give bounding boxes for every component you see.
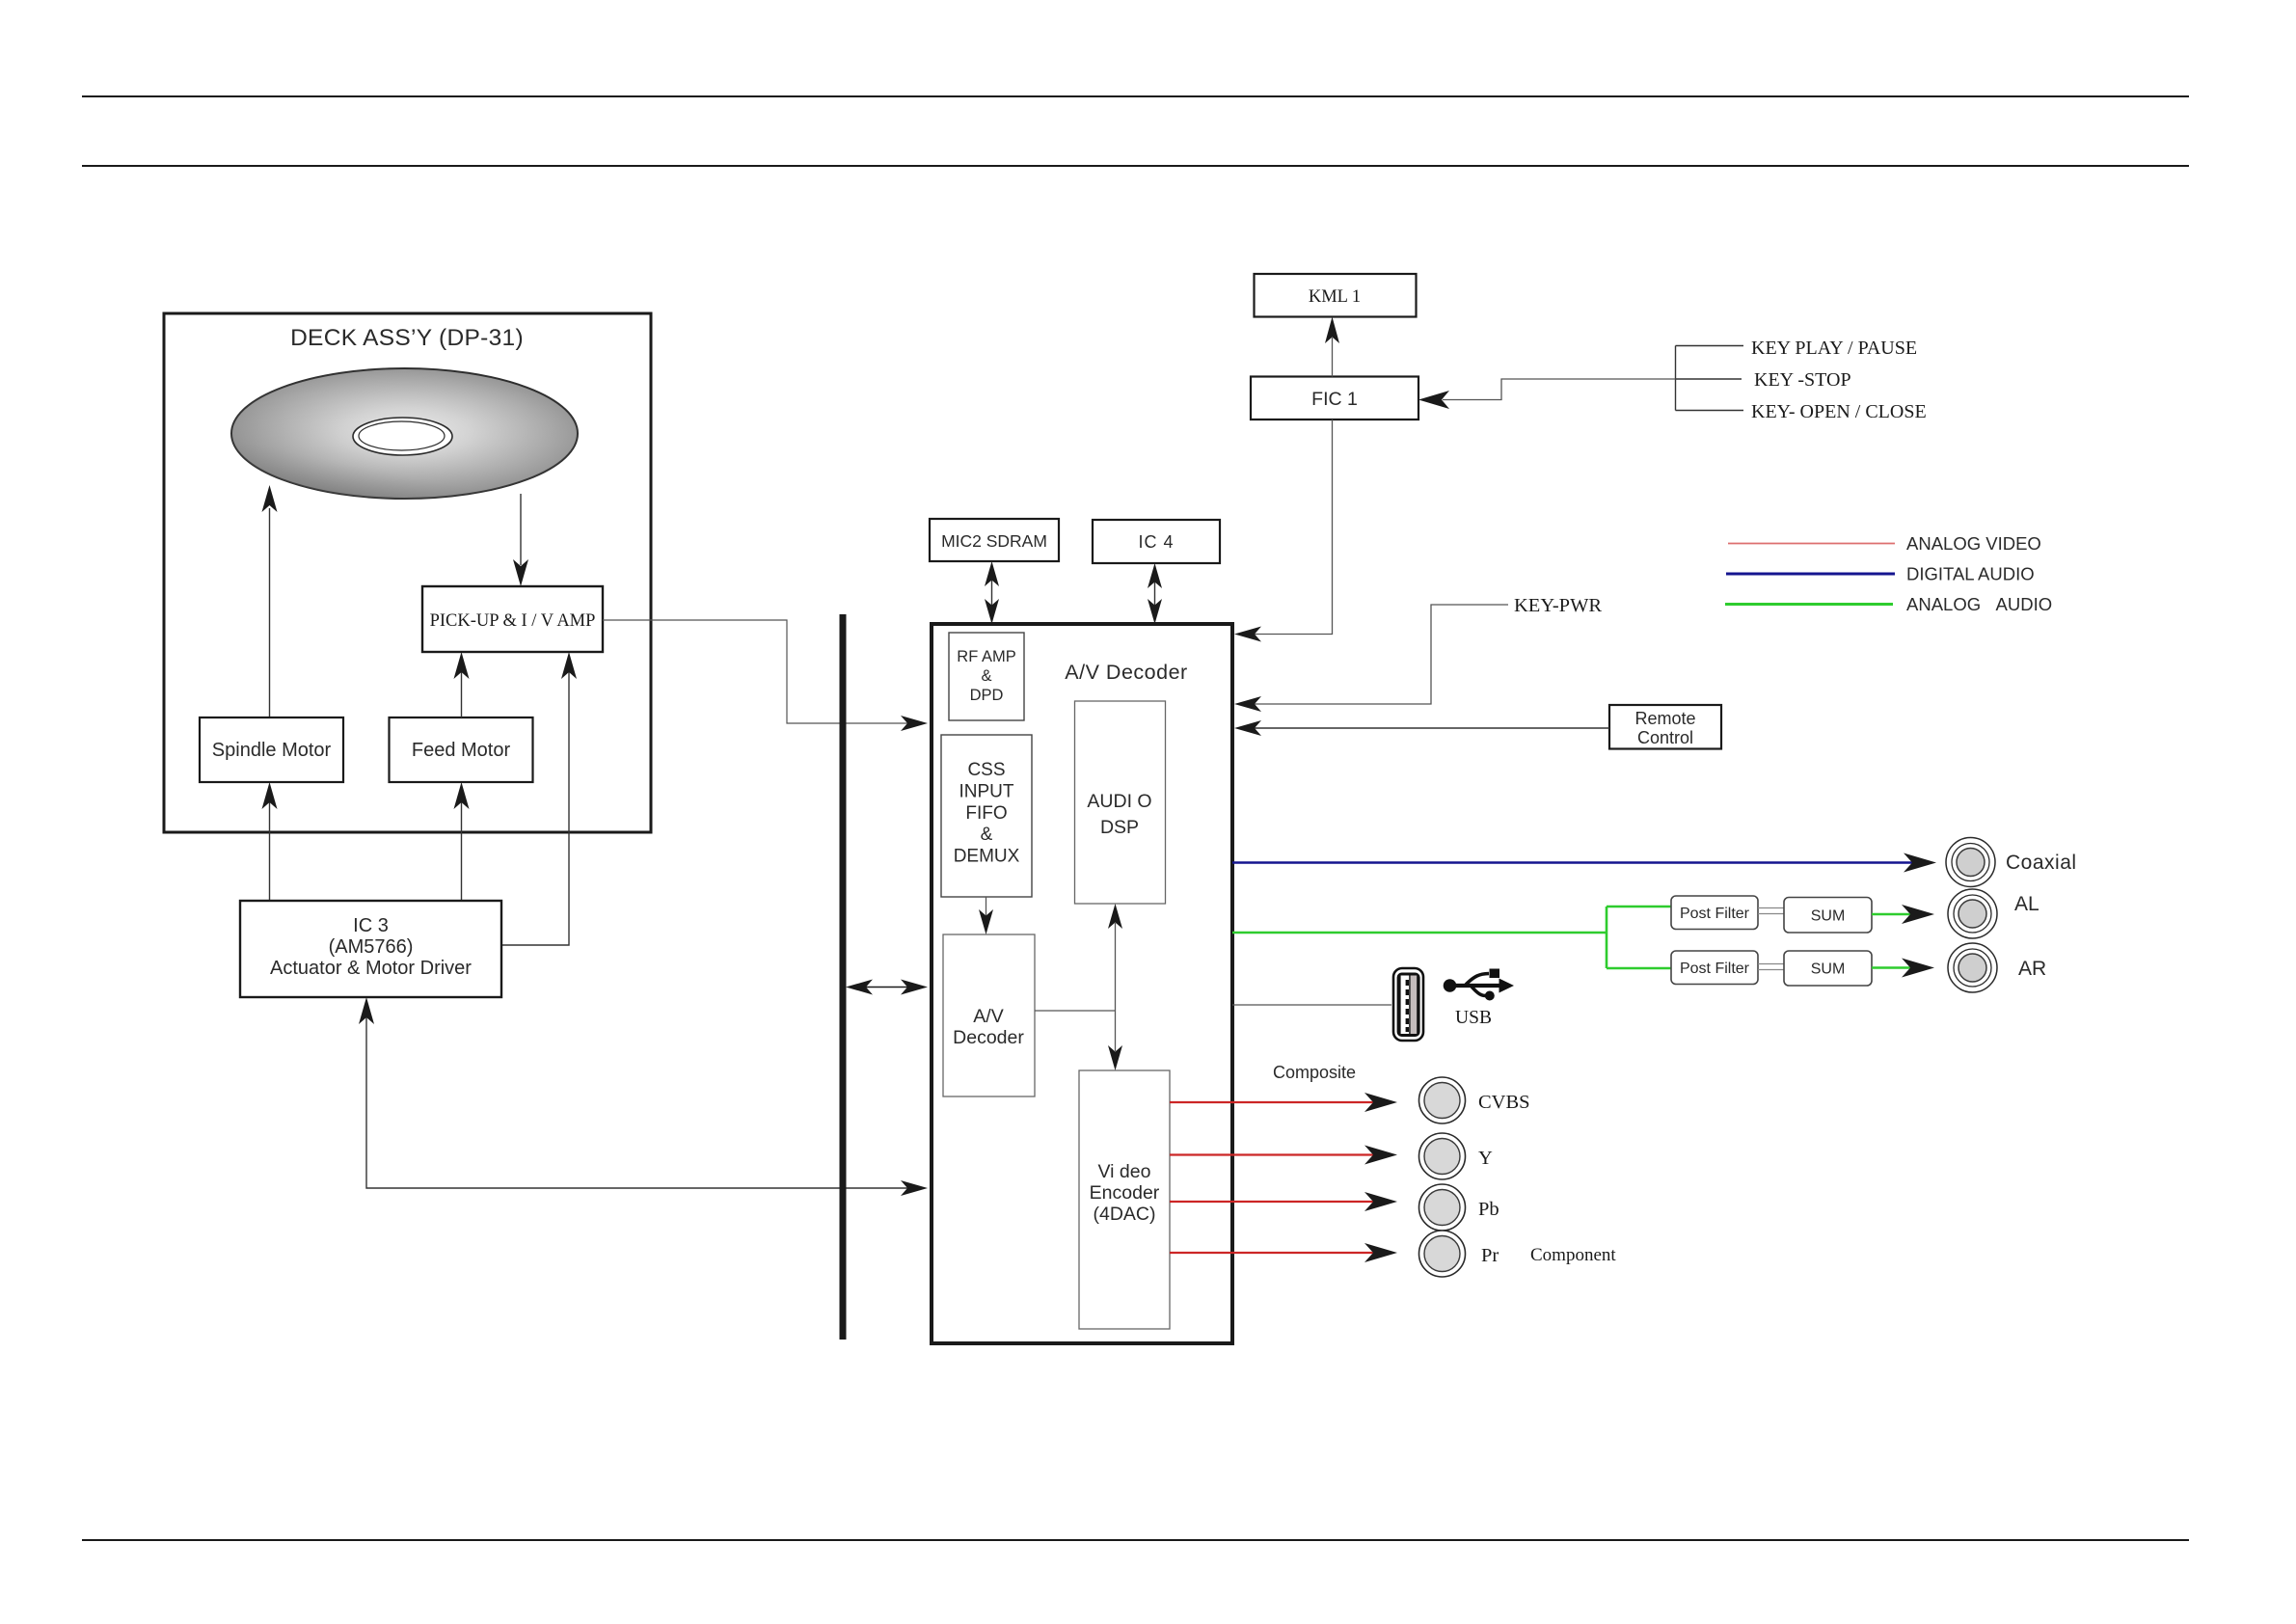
connector CVBS xyxy=(1419,1077,1530,1123)
svg-text:(AM5766): (AM5766) xyxy=(329,936,414,958)
svg-text:USB: USB xyxy=(1455,1008,1492,1028)
svg-text:AL: AL xyxy=(2014,893,2039,915)
wire feed motor from IC3 xyxy=(454,782,470,901)
AUDIO DSP block xyxy=(1075,701,1166,904)
svg-text:Component: Component xyxy=(1530,1245,1616,1265)
KML 1 box xyxy=(1255,274,1417,317)
DECK ASS'Y (DP-31) enclosure xyxy=(164,313,651,832)
RF AMP & DPD block xyxy=(949,633,1024,720)
svg-text:Spindle Motor: Spindle Motor xyxy=(212,740,332,761)
wire Y (red) xyxy=(1170,1146,1397,1165)
svg-text:Pb: Pb xyxy=(1478,1199,1499,1220)
Spindle Motor box xyxy=(200,717,343,782)
USB receptacle icon xyxy=(1393,968,1423,1041)
svg-text:DECK ASS’Y (DP-31): DECK ASS’Y (DP-31) xyxy=(290,325,524,351)
svg-text:KEY- OPEN / CLOSE: KEY- OPEN / CLOSE xyxy=(1751,401,1927,422)
wire IC3 to pick-up xyxy=(502,652,578,945)
svg-text:Post Filter: Post Filter xyxy=(1680,906,1750,922)
svg-text:KEY PLAY / PAUSE: KEY PLAY / PAUSE xyxy=(1751,338,1917,359)
svg-text:ANALOG VIDEO: ANALOG VIDEO xyxy=(1906,533,2041,554)
wire A/V core junction to audio dsp and video encoder xyxy=(1035,904,1122,1070)
svg-text:SUM: SUM xyxy=(1811,961,1846,978)
A/V Decoder main IC box xyxy=(932,624,1232,1343)
svg-text:IC 3: IC 3 xyxy=(353,915,389,936)
svg-text:FIFO: FIFO xyxy=(965,803,1007,824)
svg-text:ANALOG AUDIO: ANALOG AUDIO xyxy=(1906,594,2052,614)
svg-text:&: & xyxy=(981,825,993,845)
Post Filter box (right channel) xyxy=(1671,951,1758,985)
svg-text:KEY -STOP: KEY -STOP xyxy=(1754,369,1851,391)
SUM box (right channel) xyxy=(1784,951,1872,986)
legend: digital audio line xyxy=(1726,564,2035,584)
disc (DVD media) xyxy=(231,368,578,499)
wire post filter to SUM (right) xyxy=(1758,964,1784,970)
IC 3 (AM5766) Actuator & Motor Driver box xyxy=(240,901,501,997)
svg-text:A/V: A/V xyxy=(973,1006,1003,1027)
svg-text:KML 1: KML 1 xyxy=(1309,287,1361,307)
CSS INPUT FIFO & DEMUX block xyxy=(941,735,1032,897)
wire keys to FIC 1 xyxy=(1418,379,1676,409)
svg-text:Post Filter: Post Filter xyxy=(1680,961,1750,977)
wire IC3 bottom to A/V decoder bus xyxy=(359,997,928,1196)
Video Encoder (4DAC) block xyxy=(1079,1070,1170,1329)
wire analog audio (green) from decoder xyxy=(1232,907,1671,968)
svg-text:CVBS: CVBS xyxy=(1478,1092,1530,1113)
svg-text:Vi deo: Vi deo xyxy=(1098,1161,1151,1182)
svg-text:Feed Motor: Feed Motor xyxy=(412,740,511,761)
wire disc to pick-up xyxy=(513,494,528,586)
Post Filter box (left channel) xyxy=(1671,896,1758,930)
Feed Motor box xyxy=(390,717,533,782)
svg-text:Composite: Composite xyxy=(1273,1063,1356,1082)
svg-text:DEMUX: DEMUX xyxy=(954,847,1020,867)
bus to A/V decoder double arrow xyxy=(846,980,928,995)
svg-text:PICK-UP & I / V AMP: PICK-UP & I / V AMP xyxy=(430,611,596,631)
svg-text:Remote: Remote xyxy=(1634,709,1695,728)
svg-text:(4DAC): (4DAC) xyxy=(1093,1204,1155,1225)
wire digital audio coaxial (blue) xyxy=(1232,853,1936,873)
svg-text:&: & xyxy=(981,667,991,685)
wire MIC2 SDRAM to A/V decoder (bidirectional) xyxy=(985,561,999,624)
legend: analog video line xyxy=(1728,533,2041,554)
svg-text:Coaxial: Coaxial xyxy=(2006,852,2077,874)
wire FIC 1 to KML 1 xyxy=(1325,317,1339,377)
svg-text:RF AMP: RF AMP xyxy=(957,648,1015,665)
IC 4 box xyxy=(1093,520,1220,563)
svg-text:FIC 1: FIC 1 xyxy=(1311,389,1358,410)
svg-text:Control: Control xyxy=(1637,728,1693,747)
connector Pb xyxy=(1419,1184,1499,1231)
FIC 1 box xyxy=(1251,377,1418,420)
wire USB from decoder xyxy=(1232,1004,1391,1006)
svg-text:Y: Y xyxy=(1478,1148,1493,1169)
wire post filter to SUM (left) xyxy=(1758,908,1784,914)
svg-text:DPD: DPD xyxy=(970,687,1004,704)
connector AR xyxy=(1948,943,2046,992)
wire CVBS (red) xyxy=(1170,1093,1397,1112)
connector Pr xyxy=(1419,1231,1499,1277)
A/V Decoder core block xyxy=(943,934,1035,1096)
MIC2 SDRAM box xyxy=(930,519,1059,561)
PICK-UP & I/V AMP box xyxy=(422,586,603,652)
svg-text:DIGITAL AUDIO: DIGITAL AUDIO xyxy=(1906,564,2035,584)
wire pick-up output to A/V decoder xyxy=(603,620,928,731)
svg-text:INPUT: INPUT xyxy=(959,782,1014,802)
SUM box (left channel) xyxy=(1784,898,1872,934)
wire feed motor to pick-up xyxy=(454,652,470,717)
wire spindle motor from IC3 xyxy=(262,782,278,901)
wire SUM to AR connector (green) xyxy=(1872,959,1934,978)
wire spindle motor to disc xyxy=(262,485,278,717)
USB trident symbol xyxy=(1444,969,1514,1001)
svg-text:MIC2 SDRAM: MIC2 SDRAM xyxy=(941,531,1047,551)
svg-text:AUDI O: AUDI O xyxy=(1087,791,1151,812)
svg-text:Actuator & Motor Driver: Actuator & Motor Driver xyxy=(270,958,472,979)
svg-text:DSP: DSP xyxy=(1100,817,1139,838)
svg-text:A/V Decoder: A/V Decoder xyxy=(1065,661,1187,684)
wire SUM to AL connector (green) xyxy=(1872,905,1934,924)
svg-text:Pr: Pr xyxy=(1481,1245,1499,1266)
legend: analog audio line xyxy=(1725,594,2052,614)
wire CSS demux to A/V decoder core xyxy=(979,897,993,934)
wire FIC 1 to A/V decoder xyxy=(1234,420,1333,642)
connector AL xyxy=(1948,889,2039,938)
svg-text:SUM: SUM xyxy=(1811,908,1846,925)
svg-text:CSS: CSS xyxy=(967,760,1005,780)
data bus (thick line) xyxy=(840,614,847,1340)
key input trunk xyxy=(1676,346,1744,411)
wire Remote Control to A/V decoder xyxy=(1234,720,1609,736)
Remote Control box xyxy=(1609,705,1721,749)
wire KEY-PWR to A/V decoder xyxy=(1234,605,1508,712)
svg-text:Encoder: Encoder xyxy=(1090,1182,1160,1204)
svg-text:KEY-PWR: KEY-PWR xyxy=(1514,595,1602,616)
svg-text:IC 4: IC 4 xyxy=(1138,532,1174,552)
wire Pb (red) xyxy=(1170,1192,1397,1211)
connector Y xyxy=(1419,1133,1494,1179)
svg-text:Decoder: Decoder xyxy=(953,1027,1024,1048)
wire Pr (red) xyxy=(1170,1243,1397,1262)
connector Coaxial xyxy=(1946,838,2077,887)
wire IC 4 to A/V decoder (bidirectional) xyxy=(1148,563,1162,624)
svg-text:AR: AR xyxy=(2018,958,2046,980)
